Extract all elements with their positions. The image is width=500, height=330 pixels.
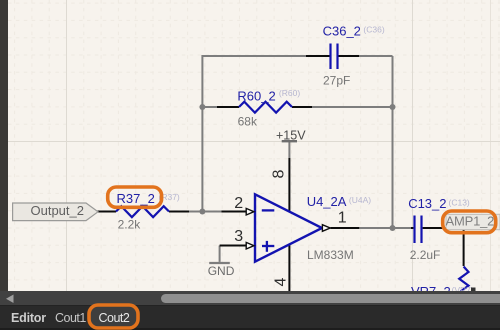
svg-text:1: 1 xyxy=(338,210,347,227)
svg-text:27pF: 27pF xyxy=(323,74,350,88)
svg-text:R60_2: R60_2 xyxy=(237,88,275,103)
svg-text:Output_2: Output_2 xyxy=(31,203,85,218)
svg-text:8: 8 xyxy=(271,169,288,178)
svg-text:68k: 68k xyxy=(238,115,258,129)
svg-text:2.2uF: 2.2uF xyxy=(410,248,441,262)
svg-text:3: 3 xyxy=(234,228,243,245)
svg-text:LM833M: LM833M xyxy=(307,248,354,262)
svg-text:R37_2: R37_2 xyxy=(117,191,155,206)
svg-text:(R60): (R60) xyxy=(279,88,300,98)
svg-text:Cout1: Cout1 xyxy=(55,311,86,325)
svg-text:GND: GND xyxy=(208,264,235,278)
svg-text:4: 4 xyxy=(273,277,290,286)
svg-text:C13_2: C13_2 xyxy=(408,196,446,211)
svg-text:2: 2 xyxy=(234,195,243,212)
svg-text:C36_2: C36_2 xyxy=(323,24,361,39)
svg-text:+15V: +15V xyxy=(276,128,306,142)
svg-text:Cout2: Cout2 xyxy=(99,311,130,325)
svg-text:(U4A): (U4A) xyxy=(349,195,371,205)
svg-text:Editor: Editor xyxy=(11,311,46,325)
svg-text:AMP1_2: AMP1_2 xyxy=(446,213,495,228)
svg-text:(C13): (C13) xyxy=(449,197,470,207)
svg-text:2.2k: 2.2k xyxy=(118,217,142,231)
svg-text:(C36): (C36) xyxy=(363,24,384,34)
svg-text:U4_2A: U4_2A xyxy=(307,194,347,209)
